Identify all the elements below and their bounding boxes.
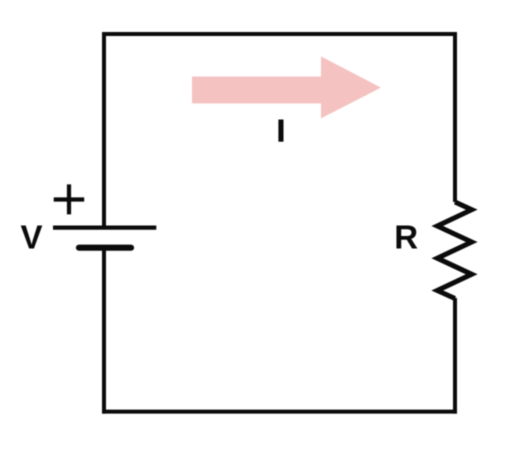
wire bottom segment bbox=[102, 410, 457, 414]
current direction arrow bbox=[192, 56, 381, 118]
plus sign polarity marker bbox=[54, 184, 84, 214]
battery V negative short plate bbox=[79, 245, 131, 251]
svg-text:V: V bbox=[21, 218, 43, 255]
wire left lower segment (bottom-left corner to battery - terminal) bbox=[102, 248, 106, 414]
resistor R zigzag bbox=[437, 202, 471, 299]
wire right upper segment (top-right corner to resistor) bbox=[453, 32, 457, 202]
battery V positive long plate bbox=[53, 226, 156, 230]
svg-text:R: R bbox=[394, 218, 418, 255]
label I bbox=[278, 120, 283, 142]
wire top segment bbox=[102, 32, 457, 36]
wire right lower segment (resistor to bottom-right corner) bbox=[453, 298, 457, 414]
wire left upper segment (battery + terminal to top-left corner) bbox=[102, 32, 106, 228]
